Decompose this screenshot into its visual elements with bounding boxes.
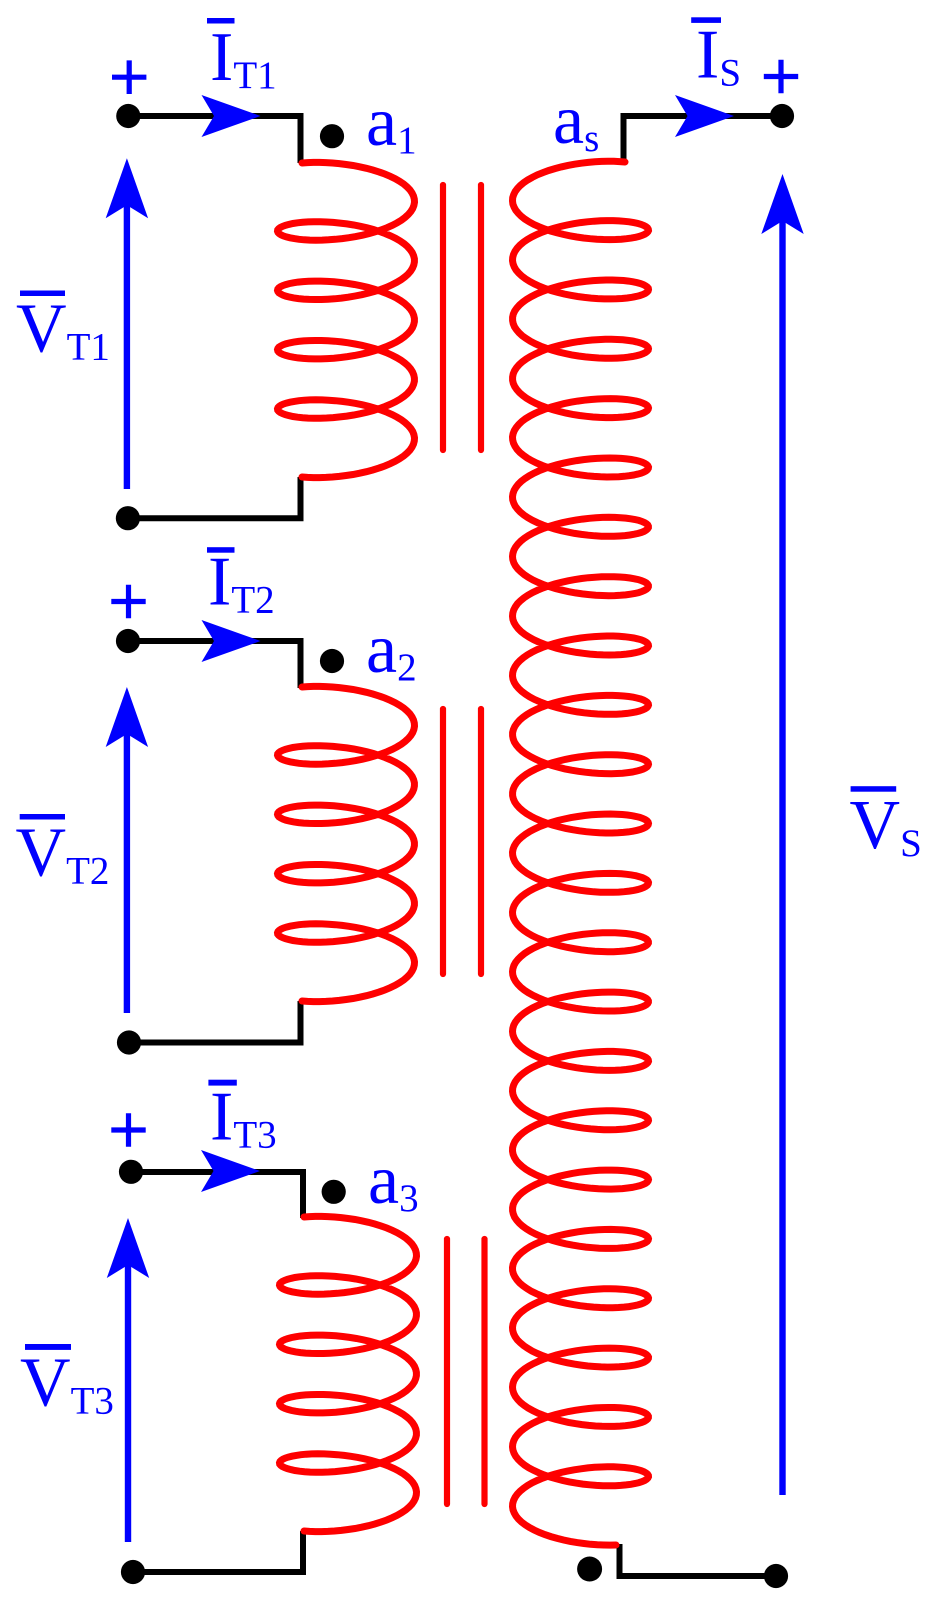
label I_T1	[207, 18, 235, 24]
node: T3 - terminal dot	[121, 1560, 145, 1584]
wire: T2 bottom lead	[129, 1001, 301, 1043]
wire: T1 bottom lead	[128, 477, 301, 518]
label I_T2	[207, 547, 235, 553]
label V_T2	[20, 814, 65, 820]
label + (T2)	[111, 585, 145, 619]
core lines T2	[443, 709, 481, 974]
label + (T3)	[111, 1113, 145, 1147]
node: T2 - terminal dot	[117, 1030, 141, 1054]
node: secondary + terminal dot	[770, 104, 794, 128]
wire: T1 top lead	[128, 116, 301, 163]
polarity dot a1	[320, 124, 344, 148]
primary winding T3	[280, 1216, 417, 1531]
node: T1 - terminal dot	[116, 506, 140, 530]
node: T3 + terminal dot	[119, 1160, 143, 1184]
voltage arrow V_T2	[124, 730, 130, 1013]
label I_S	[691, 17, 721, 23]
voltage arrow V_S	[779, 221, 785, 1495]
label V_T1	[20, 291, 65, 297]
node: T1 + terminal dot	[116, 104, 140, 128]
wire: T3 bottom lead	[133, 1531, 303, 1572]
core lines T3	[447, 1239, 485, 1504]
current arrow I_T1	[202, 95, 261, 137]
polarity dot (secondary, a_s)	[577, 1557, 602, 1582]
secondary winding S	[513, 161, 649, 1545]
core lines T1	[443, 185, 481, 450]
current arrow I_T3	[201, 1150, 260, 1192]
node: T2 + terminal dot	[116, 629, 140, 653]
current arrow I_S	[675, 95, 734, 137]
wire: secondary bottom lead	[620, 1544, 777, 1576]
current arrow I_T2	[202, 620, 261, 662]
wire: T2 top lead	[128, 641, 301, 688]
polarity dot a2	[320, 649, 344, 673]
wire: T3 top lead	[131, 1172, 303, 1218]
label V_S	[851, 786, 897, 792]
voltage arrow V_T3	[125, 1265, 131, 1542]
label V_T3	[25, 1344, 71, 1350]
label I_T3	[208, 1080, 236, 1086]
node: secondary - terminal dot	[764, 1564, 788, 1588]
primary winding T2	[278, 686, 415, 1001]
primary winding T1	[278, 162, 415, 477]
polarity dot a3	[322, 1180, 346, 1204]
label + (S)	[764, 60, 798, 94]
label + (T1)	[112, 60, 146, 94]
voltage arrow V_T1	[124, 205, 130, 489]
wire: secondary top lead	[624, 116, 783, 162]
